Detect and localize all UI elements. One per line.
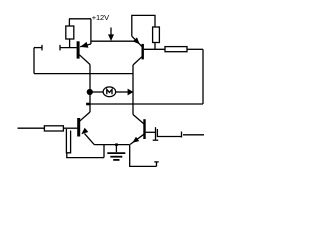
wire Q1 collector vertical [89,65,91,113]
svg-text:+12V: +12V [92,13,109,22]
wire feedback bottom horizontal to node C2 [34,73,133,75]
wire Q2 base lead right [144,48,165,50]
node output terminal tick with drop [157,129,181,137]
transistor Q1 collector diagonal [79,55,90,65]
transistor Q2 emitter arrowhead [133,37,140,44]
transistor Q4 bar [143,119,145,139]
wire R1 top lead [68,19,70,26]
resistor R3 [165,47,187,52]
resistor R1 [66,26,74,39]
transistor Q3 emitter arrowhead [81,128,88,135]
transistor Q4 emitter arrowhead [132,137,139,143]
transistor Q4 emitter diagonal [130,134,144,144]
node emitter terminal crossbar [154,161,158,163]
node far terminal tick [181,132,183,138]
wire Q2-Q4 vertical [132,65,134,115]
transistor Q3 collector diagonal [80,112,90,121]
transistor Q3 bar [77,118,80,137]
wire far right stub [183,134,204,136]
wire lower rail up to emitter wire [103,145,105,158]
transistor Q2 emitter diagonal [132,36,142,46]
node input terminal right tick [59,45,61,51]
wire feedback left vertical [33,48,35,74]
wire Q3 emitter horizontal to Q4 [94,144,130,146]
ground bar 2 [110,156,122,158]
ground bar 1 [107,152,125,154]
wire Q4 emitter drop [130,145,157,167]
wire R3 to right corner [187,48,203,50]
resistor R2 [153,27,160,43]
resistor R4 [44,126,63,131]
transistor Q1 bar [77,41,80,58]
wire +12V rail top-left [69,18,91,20]
node Q4 base terminal crossbar [153,139,159,141]
wire bottom long horizontal [86,103,203,105]
ground stub [115,145,117,153]
wire supply arrow stub [110,28,112,37]
node Q4 base terminal tick [155,127,157,140]
wire M source left lead [90,91,103,93]
node emitter terminal stub [156,162,158,166]
wire Q4 base lead [146,131,156,133]
transistor Q1 emitter diagonal [80,44,91,47]
node ground junction dot [115,143,118,146]
wire R4 to Q3 base [63,127,77,129]
node junction dot at current source [87,89,93,95]
wire R2 bottom lead [154,43,156,50]
wire R5 bottom to lower rail [67,153,104,158]
node supply arrowhead [108,34,114,41]
wire right vertical [202,49,204,104]
ground bar 3 [113,159,119,161]
node arrowhead into Q2-Q4 vertical [128,89,134,96]
wire T1 base [60,47,77,49]
wire +12V drop to T1 emitter [90,19,92,44]
transistor Q4 collector diagonal [133,115,144,125]
transistor Q1 emitter arrowhead [80,42,88,48]
wire feedback left horizontal [34,47,42,49]
wire R1 bottom lead [69,39,71,48]
transistor Q3 emitter diagonal [85,134,95,145]
node input terminal left tick [41,45,43,51]
node junction blob bottom wire [86,103,89,106]
wire emitter rail [91,40,137,42]
wire Q3 base [18,127,45,129]
resistor R5 narrow box under base [66,129,70,153]
transistor Q2 bar [142,44,144,60]
transistor Q2 collector diagonal [133,57,142,65]
wire bracket over Q2 [132,15,155,36]
current source M circle [103,87,116,97]
wire M source right lead [116,91,129,93]
